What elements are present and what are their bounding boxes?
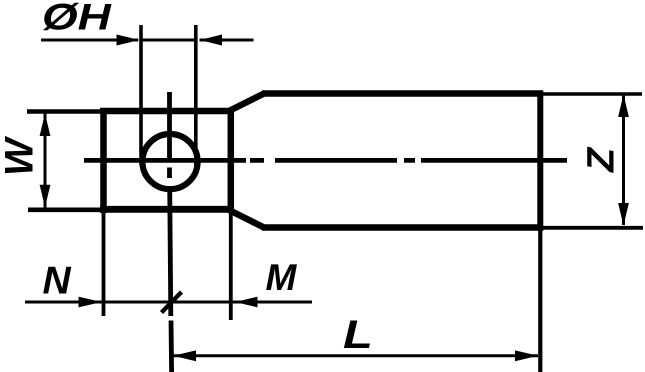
palm left extension below (102, 213, 106, 316)
arrow L right (515, 350, 538, 361)
palm left edge (100, 108, 107, 213)
dimension line OH (41, 39, 254, 42)
palm right extension below (229, 213, 233, 320)
palm right edge (228, 108, 235, 213)
oblique tick at N/M junction (162, 292, 182, 313)
taper bottom (229, 210, 264, 228)
taper top (229, 94, 264, 112)
arrow W top (40, 114, 51, 137)
arrow W bottom (40, 185, 51, 208)
arrow OH left (117, 35, 140, 46)
barrel bottom (262, 224, 543, 231)
dimension line W (44, 113, 47, 208)
arrow M (235, 297, 258, 308)
svg-text:Z: Z (580, 147, 622, 174)
svg-text:ØH: ØH (42, 0, 112, 37)
arrow N (79, 297, 102, 308)
horizontal centerline (84, 158, 567, 163)
Z bottom extension line (543, 226, 643, 230)
arrow Z top (618, 95, 629, 118)
svg-text:M: M (266, 257, 298, 298)
Z top extension line (543, 92, 642, 96)
arrow Z bottom (618, 203, 629, 226)
svg-text:N: N (43, 260, 72, 303)
palm top W extension (27, 109, 100, 114)
dimension line L (171, 354, 538, 357)
hole (142, 134, 197, 189)
palm bottom W extension (28, 208, 100, 213)
arrow OH right (200, 35, 223, 46)
palm bottom edge (100, 206, 233, 213)
barrel end extension below (538, 231, 542, 372)
svg-text:W: W (0, 135, 42, 176)
vertical centerline (170, 92, 172, 372)
svg-text:L: L (343, 313, 373, 357)
palm top edge (100, 108, 233, 115)
arrow L left (173, 350, 196, 361)
dimension line N M (25, 301, 312, 304)
hole right extension line (194, 25, 198, 165)
hole left extension line (139, 25, 143, 165)
dimension line Z (622, 95, 625, 225)
barrel end (537, 91, 543, 232)
barrel top (262, 90, 543, 97)
